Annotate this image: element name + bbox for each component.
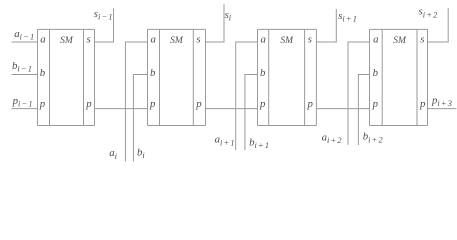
wire b(i-1) input stub [12, 74, 38, 76]
wire a(i+1) feed: horizontal into U3 [236, 41, 258, 43]
svg-text:ai−1: ai−1 [14, 28, 35, 42]
svg-text:bi+2: bi+2 [363, 131, 384, 145]
svg-text:s: s [420, 33, 424, 45]
wire p(i+3) output stub [428, 108, 457, 110]
svg-text:b: b [260, 67, 266, 79]
svg-text:s: s [308, 33, 312, 45]
wire a(i) feed: horizontal into U2 [125, 41, 147, 43]
svg-text:p: p [259, 98, 266, 110]
svg-text:b: b [40, 67, 46, 79]
wire b(i+2) feed: horizontal into U4 [358, 74, 369, 76]
SM block U4 (stage i+2) [370, 29, 428, 125]
svg-text:a: a [40, 33, 45, 45]
wire s(i) output: horizontal from U2 s port [206, 41, 225, 43]
svg-text:SM: SM [60, 36, 74, 46]
svg-text:s: s [196, 33, 200, 45]
svg-text:p: p [39, 98, 46, 110]
wire p chain U1 to U2 [95, 108, 148, 110]
wire a(i-1) input stub [12, 41, 38, 43]
svg-text:p: p [419, 98, 426, 110]
svg-text:ai: ai [109, 147, 118, 161]
wire s(i+2) output: horizontal from U4 s port [428, 41, 449, 43]
SM block U3 (stage i+1) [258, 29, 317, 125]
wire p chain U3 to U4 [316, 108, 369, 110]
svg-text:SM: SM [170, 36, 184, 46]
wire a(i) feed: vertical drop [124, 42, 126, 162]
svg-text:pi−1: pi−1 [12, 95, 34, 109]
wire b(i) feed: vertical drop [132, 74, 134, 162]
svg-text:si+1: si+1 [338, 10, 358, 24]
wire b(i+2) feed: vertical drop [357, 74, 359, 145]
wire s(i+2) output: vertical riser [447, 8, 449, 42]
svg-text:p: p [372, 98, 379, 110]
SM block U2 (stage i) [148, 29, 206, 125]
wire s(i) output: vertical riser [223, 4, 225, 42]
svg-text:p: p [149, 98, 156, 110]
wire a(i+1) feed: vertical drop [235, 42, 237, 151]
svg-text:b: b [150, 67, 156, 79]
svg-text:si+2: si+2 [419, 6, 439, 20]
wire b(i) feed: horizontal into U2 [133, 74, 147, 76]
svg-text:p: p [195, 98, 202, 110]
wire b(i+1) feed: horizontal into U3 [245, 74, 258, 76]
wire s(i+1) output: vertical riser [335, 9, 337, 43]
svg-text:ai+1: ai+1 [215, 134, 236, 148]
svg-text:p: p [306, 98, 313, 110]
svg-text:s: s [86, 33, 90, 45]
wire b(i+1) feed: vertical drop [244, 74, 246, 150]
wire a(i+2) feed: vertical drop [347, 42, 349, 145]
svg-text:bi: bi [137, 146, 146, 160]
wire s(i-1) output: horizontal from U1 s port [95, 41, 114, 43]
svg-text:bi−1: bi−1 [12, 60, 33, 74]
svg-text:ai+2: ai+2 [322, 131, 343, 145]
svg-text:b: b [373, 67, 379, 79]
svg-text:pi+3: pi+3 [431, 94, 453, 108]
wire s(i-1) output: vertical riser [113, 9, 115, 43]
wire s(i+1) output: horizontal from U3 s port [316, 41, 336, 43]
svg-text:si−1: si−1 [94, 8, 114, 22]
svg-text:a: a [373, 33, 378, 45]
wire a(i+2) feed: horizontal into U4 [348, 41, 370, 43]
SM block U1 (stage i-1) [38, 29, 95, 125]
svg-text:SM: SM [393, 36, 407, 46]
svg-text:bi+1: bi+1 [249, 136, 270, 150]
wire p(i-1) input stub [12, 108, 38, 110]
wire p chain U2 to U3 [206, 108, 258, 110]
svg-text:si: si [225, 9, 233, 23]
svg-text:a: a [260, 33, 265, 45]
svg-text:a: a [150, 33, 155, 45]
svg-text:SM: SM [280, 36, 294, 46]
svg-text:p: p [85, 98, 92, 110]
